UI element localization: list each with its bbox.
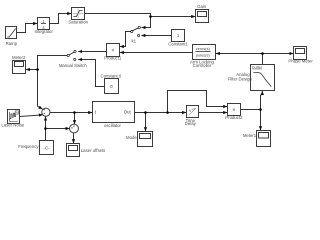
svg-text:Integrator: Integrator: [34, 29, 53, 34]
svg-text:Laser offsets: Laser offsets: [81, 148, 106, 153]
svg-text:-sT: -sT: [191, 107, 195, 111]
svg-text:Laser Noise: Laser Noise: [1, 122, 25, 127]
svg-text:Gain: Gain: [197, 4, 207, 9]
svg-text:Frequency: Frequency: [18, 144, 39, 149]
svg-text:oscillator: oscillator: [104, 123, 122, 128]
svg-text:Controller: Controller: [193, 63, 212, 68]
svg-text:Product1: Product1: [104, 56, 122, 61]
svg-text:butter: butter: [252, 64, 263, 69]
svg-text:Saturation: Saturation: [68, 19, 88, 24]
svg-text:Filter Design: Filter Design: [228, 76, 253, 81]
svg-text:×: ×: [232, 108, 235, 114]
svg-text:zeros(s): zeros(s): [196, 46, 211, 51]
svg-text:Phase Meter: Phase Meter: [288, 59, 313, 64]
svg-text:poles(s): poles(s): [196, 52, 211, 57]
svg-text:-C-: -C-: [44, 146, 51, 151]
svg-text:Constant1: Constant1: [168, 42, 188, 47]
svg-text:k1: k1: [132, 39, 137, 44]
svg-text:Constant 0: Constant 0: [101, 73, 122, 78]
svg-text:Out: Out: [124, 110, 132, 115]
svg-text:Delay: Delay: [185, 121, 197, 126]
svg-text:×: ×: [111, 48, 114, 54]
svg-text:Meter1: Meter1: [243, 133, 257, 138]
svg-text:s: s: [42, 25, 44, 30]
svg-text:Manual Switch: Manual Switch: [59, 63, 88, 68]
svg-text:Product2: Product2: [225, 115, 243, 120]
svg-text:Meter2: Meter2: [12, 55, 26, 60]
svg-text:Mode: Mode: [126, 135, 137, 140]
svg-text:Ramp: Ramp: [6, 41, 18, 46]
